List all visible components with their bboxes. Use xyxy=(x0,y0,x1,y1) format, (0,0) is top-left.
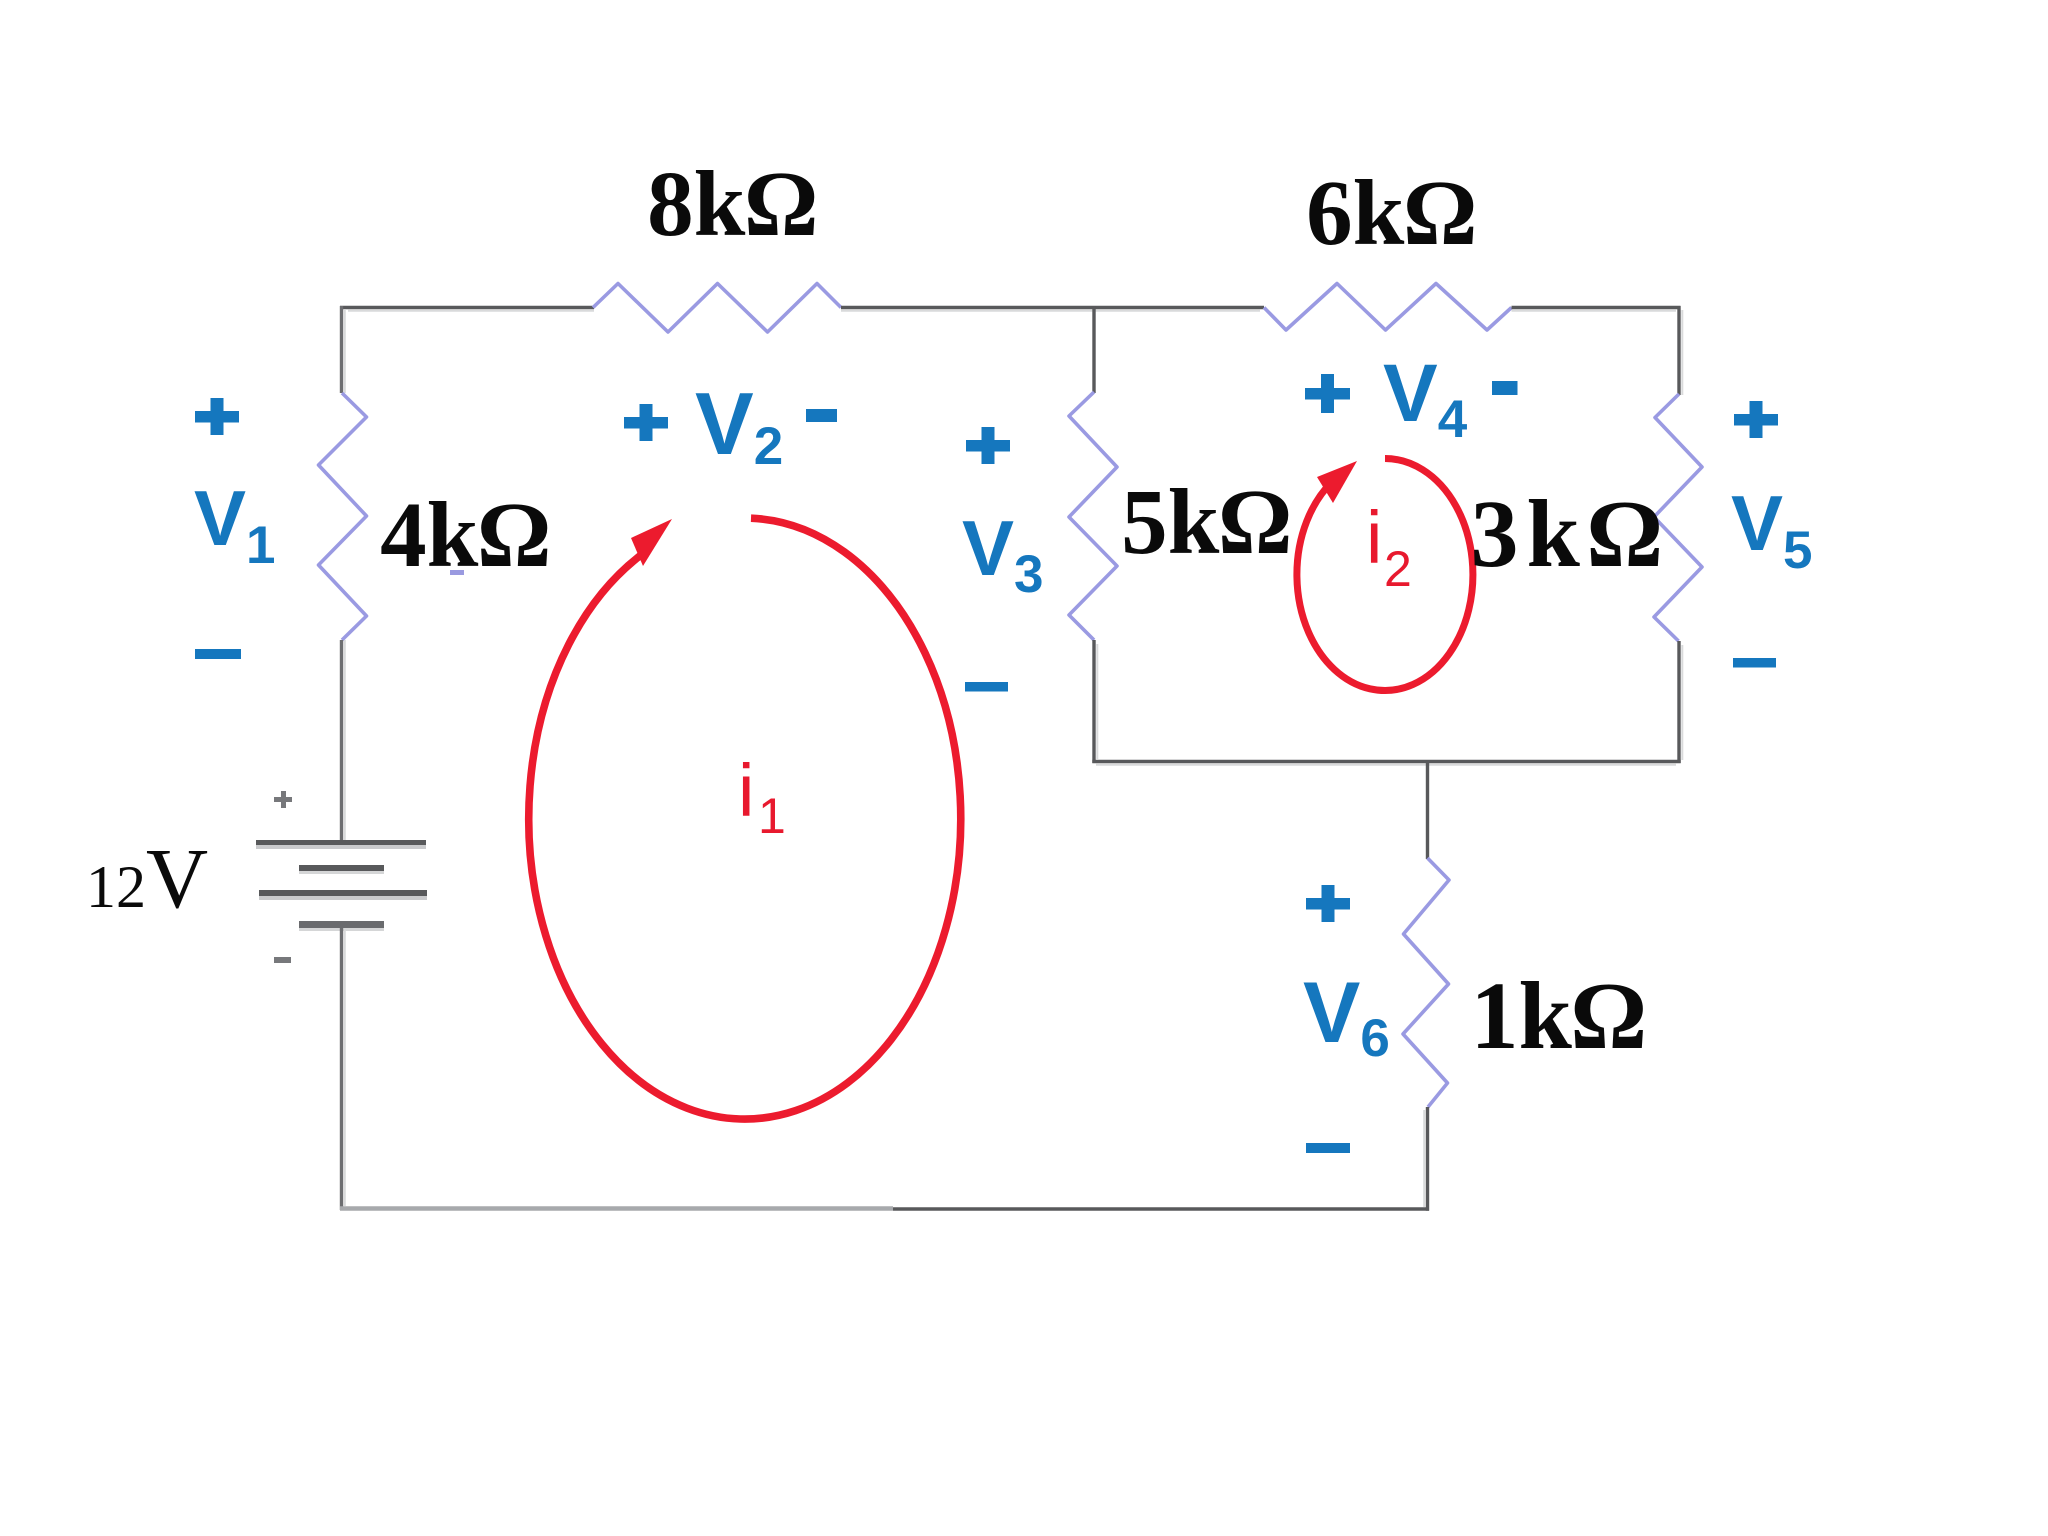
wire 1k branch upper (mesh bottom junction down to 1k resistor) xyxy=(1426,761,1429,859)
polarity + of V6 xyxy=(1306,898,1350,910)
wire bottom-right horizontal segment xyxy=(893,1207,1429,1210)
battery polarity mark - xyxy=(274,957,291,963)
wire top-left horizontal segment (top node to 8k resistor) xyxy=(340,308,594,311)
mesh current loop i2 (red arc) xyxy=(1297,459,1473,691)
battery 12V source xyxy=(256,791,427,963)
wire right vertical lower (3k resistor down to mesh bottom wire) xyxy=(1679,641,1682,763)
svg-text:i: i xyxy=(738,749,754,832)
polarity + of V1 xyxy=(195,411,239,423)
battery plate long top xyxy=(256,840,426,845)
resistor 6kΩ (horizontal zigzag) xyxy=(1264,284,1512,331)
svg-text:12V: 12V xyxy=(86,830,208,926)
polarity - of V4 xyxy=(1492,381,1518,395)
polarity + of V2 xyxy=(624,417,668,429)
polarity - of V5 xyxy=(1733,658,1776,668)
mesh current loop i1 arrowhead xyxy=(631,519,672,566)
wire middle vertical upper (node B down to 5k resistor) xyxy=(1092,306,1095,393)
svg-text:6kΩ: 6kΩ xyxy=(1306,162,1476,265)
svg-text:V2: V2 xyxy=(695,374,783,476)
svg-text:2: 2 xyxy=(1384,541,1412,597)
polarity - of V2 xyxy=(806,409,837,422)
resistor 3kΩ (right vertical zigzag) xyxy=(1654,394,1702,641)
wire middle vertical lower (5k resistor down to mesh bottom wire) xyxy=(1094,640,1097,763)
polarity + of V4 xyxy=(1305,388,1350,400)
wire right vertical upper (top-right corner down to 3k resistor) xyxy=(1679,306,1682,395)
svg-text:1: 1 xyxy=(758,788,786,844)
svg-text:V3: V3 xyxy=(962,504,1044,604)
wire left vertical upper (corner down to 4k resistor) xyxy=(342,306,345,393)
svg-text:V6: V6 xyxy=(1303,965,1390,1068)
battery polarity mark + xyxy=(274,797,292,802)
mesh current loop i2 arrowhead xyxy=(1317,461,1357,503)
wire mesh-2 bottom horizontal segment xyxy=(1092,762,1680,765)
wire 1k branch lower (1k resistor down to bottom wire) xyxy=(1424,1107,1427,1211)
wire left vertical middle (4k resistor down to battery + plate) xyxy=(342,640,345,842)
wire bottom-left horizontal segment xyxy=(340,1206,893,1211)
svg-text:5kΩ: 5kΩ xyxy=(1121,471,1291,574)
svg-text:1kΩ: 1kΩ xyxy=(1470,962,1645,1069)
svg-text:4kΩ: 4kΩ xyxy=(380,484,550,587)
svg-text:V1: V1 xyxy=(194,474,276,575)
svg-text:V4: V4 xyxy=(1383,348,1468,449)
polarity + of V3 xyxy=(966,440,1010,452)
battery plate short upper xyxy=(299,865,384,871)
svg-text:V5: V5 xyxy=(1731,479,1813,580)
battery plate short lower xyxy=(299,921,384,928)
svg-text:8kΩ: 8kΩ xyxy=(647,153,817,256)
wire left vertical lower (battery - plate down to bottom-left corner) xyxy=(342,928,345,1210)
svg-text:3kΩ: 3kΩ xyxy=(1470,480,1669,587)
resistor 1kΩ (vertical zigzag) xyxy=(1403,858,1449,1107)
polarity - of V3 xyxy=(965,682,1008,692)
mesh current loop i1 (red arc) xyxy=(529,518,961,1119)
resistor 5kΩ (middle vertical zigzag) xyxy=(1069,392,1117,640)
wire top-right horizontal segment (6k to top-right corner) xyxy=(1512,308,1681,311)
wire top-middle horizontal segment (8k to 6k through node B) xyxy=(841,308,1264,311)
battery plate long bottom xyxy=(259,890,427,896)
polarity + of V5 xyxy=(1734,414,1778,426)
svg-text:i: i xyxy=(1366,496,1382,579)
polarity - of V6 xyxy=(1306,1143,1350,1153)
polarity - of V1 xyxy=(195,649,241,659)
stray mark under 4kΩ xyxy=(450,570,464,575)
resistor 8kΩ (horizontal zigzag) xyxy=(593,284,841,333)
resistor 4kΩ (left vertical zigzag) xyxy=(319,393,367,640)
